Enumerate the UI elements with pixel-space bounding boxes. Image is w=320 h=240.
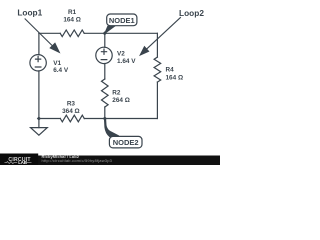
ground symbol	[31, 128, 48, 136]
voltage source V1	[30, 55, 46, 71]
svg-text:LAB: LAB	[18, 160, 27, 165]
resistor R1	[60, 30, 84, 37]
node junction dot NODE2	[103, 116, 107, 120]
svg-text:6.4 V: 6.4 V	[53, 67, 69, 74]
node junction dot NODE1	[103, 31, 107, 35]
svg-text:R4: R4	[166, 67, 175, 74]
svg-text:NODE1: NODE1	[109, 16, 135, 25]
svg-text:364 Ω: 364 Ω	[62, 108, 80, 115]
svg-text:Loop1: Loop1	[17, 7, 42, 17]
node label NODE1	[105, 14, 137, 34]
svg-text:Loop2: Loop2	[179, 8, 204, 18]
wire V2 bottom to R2	[104, 64, 106, 80]
wire right vertical lower (R4 to bottom-right corner)	[156, 82, 158, 118]
svg-text:V2: V2	[117, 50, 125, 57]
svg-text:http://circuitlab.com/c/59hy8f: http://circuitlab.com/c/59hy8fjaw3p3	[42, 158, 113, 163]
wire middle vertical (NODE1 junction to V2 top)	[104, 33, 106, 47]
svg-text:164 Ω: 164 Ω	[63, 17, 81, 24]
footer bar	[0, 156, 220, 166]
resistor R2	[102, 79, 109, 107]
resistor R3	[60, 115, 84, 122]
wire left vertical upper (corner to V1 top)	[38, 33, 40, 54]
resistor R4	[154, 57, 161, 82]
svg-text:1.64 V: 1.64 V	[117, 58, 136, 65]
wire bottom horizontal (R3 to NODE2 junction to bottom-right corner)	[84, 118, 157, 120]
svg-text:264 Ω: 264 Ω	[112, 97, 130, 104]
voltage source V2	[96, 47, 112, 63]
svg-text:R1: R1	[68, 9, 77, 16]
wire right vertical upper (top-right corner to R4)	[156, 33, 158, 57]
loop arrow Loop1	[25, 19, 60, 53]
wire top-left horizontal (corner to R1)	[39, 32, 60, 34]
svg-text:R2: R2	[112, 89, 121, 96]
svg-text:164 Ω: 164 Ω	[166, 74, 184, 81]
loop arrow Loop2	[140, 17, 181, 55]
wire bottom-left (ground junction to R3)	[39, 118, 60, 120]
ground junction dot	[37, 116, 41, 120]
wire left vertical lower (V1 bottom to ground junction)	[38, 71, 40, 119]
footer CircuitLab logo	[0, 154, 38, 166]
wire R2 bottom to NODE2 junction	[104, 107, 106, 119]
ground stub wire	[38, 119, 40, 128]
svg-text:NODE2: NODE2	[113, 138, 139, 147]
node label NODE2	[104, 118, 142, 148]
wire top horizontal (R1 to NODE1 junction to top-right corner)	[84, 32, 157, 34]
svg-text:R3: R3	[67, 100, 76, 107]
